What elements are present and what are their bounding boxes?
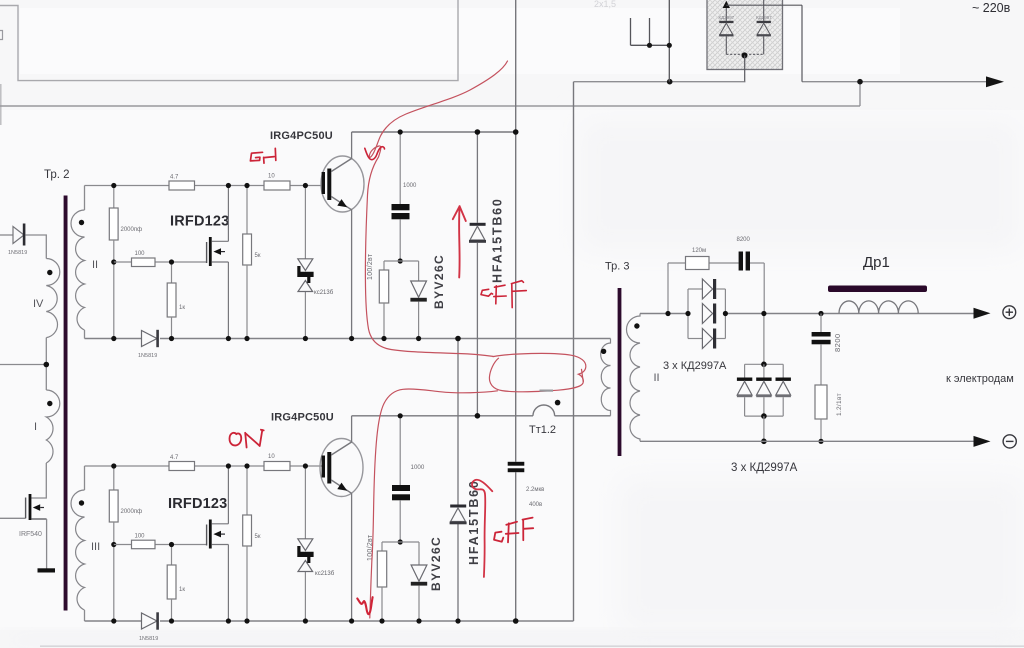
left edge stub mark <box>0 31 3 40</box>
svg-text:IRG4PC50U: IRG4PC50U <box>270 130 333 142</box>
arrowhead positive output <box>974 308 991 319</box>
resistor R10 2000pf on x=114 <box>113 466 115 490</box>
svg-text:к электродам: к электродам <box>946 373 1014 385</box>
annotation squiggle V (upper, right of IGBT) <box>365 147 385 160</box>
wire: upper collector bus y=132 <box>352 131 516 133</box>
diode D14 (center, points up) <box>763 364 765 377</box>
resistor R7 100/2w on x=384 <box>383 261 385 270</box>
svg-text:IRFD123: IRFD123 <box>168 496 227 512</box>
winding IV of Tr.2 <box>46 259 59 338</box>
annotation ON (lower) <box>229 430 263 448</box>
wire: vertical x=669 from top <box>668 0 670 82</box>
terminal plus <box>1003 306 1016 319</box>
annotation red curl line (lower, to OFF) <box>472 480 492 577</box>
capacitor C2 1000 on x=400 (lower) <box>399 416 401 485</box>
svg-text:100/2вт: 100/2вт <box>367 253 374 280</box>
inductor Dr1 winding <box>839 301 918 313</box>
wire: half-bridge link x=458 (y339-y621) <box>457 339 459 505</box>
wire: group down to negative bus <box>763 416 765 441</box>
wire: long bus y=106 <box>0 105 860 107</box>
winding I of Tr.2 <box>46 390 59 463</box>
bridge internal: right diode leg <box>763 0 765 54</box>
svg-text:BYV26C: BYV26C <box>432 254 446 309</box>
transistor V2 IRG4PC50U (lower IGBT) <box>320 439 363 497</box>
wire: long vertical x=573.5 (DC rail down to bottom bus) <box>573 82 575 621</box>
wire: Q1 source to emitter bus <box>227 262 229 339</box>
diode D4 1N5819 (inline on emitter bus) <box>142 331 158 347</box>
svg-text:Др1: Др1 <box>863 254 890 271</box>
diode D5 BYV26C on x=418.6 <box>418 261 420 281</box>
resistor R14 100/2w on x=382 <box>381 542 383 551</box>
svg-text:1N5819: 1N5819 <box>138 353 157 359</box>
svg-text:IRG4PC50U: IRG4PC50U <box>271 412 334 424</box>
transistor Q3 IRF540 <box>25 498 27 519</box>
svg-text:1к: 1к <box>179 305 185 311</box>
svg-text:Тт1.2: Тт1.2 <box>529 424 556 436</box>
node dot (669.3,45.3) <box>667 43 672 48</box>
annotation meander (exit left and V at bottom) <box>370 389 498 618</box>
svg-text:3 х КД2997А: 3 х КД2997А <box>731 462 798 474</box>
svg-text:IRF540: IRF540 <box>19 531 42 538</box>
wire: V2 emitter down to bottom bus <box>351 493 353 621</box>
wire: snubber down to bus at x=764 <box>763 263 765 314</box>
capacitor C1 1000 on x=400 <box>399 132 401 204</box>
node dot x=516 on bottom bus <box>513 618 519 624</box>
svg-text:1.2/1вт: 1.2/1вт <box>836 393 843 416</box>
control-board box (top left, cut off at top) <box>0 0 458 81</box>
wire: winding III top to lower gate bus <box>84 466 86 490</box>
svg-text:2.2мкв: 2.2мкв <box>526 487 544 493</box>
annotation ON (upper) <box>250 148 275 163</box>
wire: V2 collector up to bus y=416 <box>351 416 353 443</box>
transformer Tr.3 core <box>618 288 622 456</box>
wire: upper emitter bus y=338.5 <box>85 338 142 340</box>
zener VD1 kc213b on x=305.5 <box>304 186 306 259</box>
winding II of Tr.2 <box>71 210 85 330</box>
svg-text:II: II <box>92 259 98 271</box>
transistor Q3 IRF540 gate wire from left edge <box>0 517 26 519</box>
wire: top link y=5.2 from bridge to x802 <box>726 4 802 6</box>
wire: V1 collector up to bus y=132 <box>351 132 353 159</box>
svg-text:HFA15TB60: HFA15TB60 <box>491 197 505 283</box>
diode D8 BYV26C on x=419 (lower) <box>418 542 420 565</box>
wire: Q1 drain to top bus <box>227 186 229 242</box>
diode D12 bottom row <box>688 338 702 340</box>
diode D7 1N5819 (inline on bottom bus) <box>142 613 158 629</box>
bridge internal: dashed joining rail <box>726 53 763 55</box>
wire: diode cathode to winding IV <box>25 235 46 259</box>
svg-text:2000пф: 2000пф <box>121 509 143 515</box>
wire: output negative bus y=441.3 <box>640 440 974 442</box>
polarity dot Tt1.2 secondary <box>601 349 606 354</box>
capacitor C5 8200 on x=821 <box>820 314 822 333</box>
diode D10 top row <box>688 288 702 290</box>
diode D3 1N5819 (top left) anode wire <box>0 234 13 236</box>
resistor R2 10 (gate) <box>264 181 290 190</box>
transistor V1 IRG4PC50U (upper IGBT) <box>321 156 364 212</box>
wire: snubber row y=263 <box>668 262 686 264</box>
wire: winding III bottom to bottom bus <box>84 610 86 621</box>
winding II of Tr.3 <box>627 314 641 442</box>
resistor R12 1K on x=171.5 <box>171 545 173 566</box>
bridge internal: left diode leg <box>725 8 727 54</box>
diode D9 HFA15TB60 on x=458 (lower) <box>450 505 466 508</box>
svg-text:КД2997: КД2997 <box>719 15 735 20</box>
node dots on lower collector bus <box>475 413 481 419</box>
svg-text:кс213б: кс213б <box>315 571 335 577</box>
svg-text:I: I <box>34 421 37 433</box>
resistor R16 1.2/1w on x=821 <box>815 385 827 419</box>
svg-text:4.7: 4.7 <box>170 455 179 461</box>
svg-text:Тр. 3: Тр. 3 <box>605 261 629 273</box>
diode D6 HFA15TB60 on x=477.5 (upper) <box>476 132 478 223</box>
svg-text:кс213б: кс213б <box>314 290 334 296</box>
top rail <box>745 363 784 365</box>
svg-text:HFA15TB60: HFA15TB60 <box>467 479 481 565</box>
wire: riser x=860 joining both buses <box>859 82 861 106</box>
svg-text:4.7: 4.7 <box>170 175 179 181</box>
wire: Q2 drain to lower gate bus <box>227 466 229 524</box>
wire: output positive bus y=313.5 <box>640 313 688 315</box>
wire: stub x=630.5 <box>630 18 632 45</box>
left rail <box>687 289 689 339</box>
node dot at (860,81.7) <box>857 79 863 85</box>
svg-text:КД2997: КД2997 <box>756 15 772 20</box>
node dot bridge output (744.5,56) <box>742 52 748 58</box>
svg-text:2x1,5: 2x1,5 <box>594 0 616 9</box>
node dot at (669.7,81.7) <box>667 79 673 85</box>
resistor R4 100 <box>132 258 156 267</box>
diode D13 (left, points up) <box>744 364 746 377</box>
wire: middle gate-divider row y=262 <box>114 261 132 263</box>
resistor R1 4.7 <box>169 181 195 190</box>
terminal minus <box>1003 435 1016 448</box>
winding III of Tr.2 <box>71 490 85 610</box>
polarity dot winding III <box>79 500 84 505</box>
svg-text:8200: 8200 <box>737 237 751 243</box>
resistor R6 5K on x=247 <box>246 186 248 235</box>
svg-text:II: II <box>654 372 660 384</box>
capacitor C4 8200 (snubber) <box>739 252 743 271</box>
wire: winding II top to driver bus <box>84 186 86 211</box>
node dot x=821 on positive bus <box>818 311 823 316</box>
svg-text:BYV26C: BYV26C <box>429 536 443 591</box>
svg-text:5к: 5к <box>255 253 261 259</box>
arrowhead of 220V feed <box>986 76 1004 87</box>
svg-text:10: 10 <box>268 174 275 180</box>
mains bridge rectifier block (hatched) <box>707 0 783 70</box>
resistor R3 2000pf on x=114 <box>113 186 115 209</box>
wire: Q2 source to bottom bus <box>227 545 229 622</box>
svg-text:100: 100 <box>135 251 146 257</box>
polarity dot winding IV <box>47 270 52 275</box>
svg-text:5к: 5к <box>255 534 261 540</box>
svg-text:3 х КД2997А: 3 х КД2997А <box>663 360 727 372</box>
resistor R13 5K on x=247 <box>246 466 248 515</box>
right rail <box>724 289 726 339</box>
wire: winding I bottom to MOSFET drain <box>31 463 46 498</box>
node dots on bus at rails <box>685 311 690 316</box>
wire: long vertical x=516 (from top to bottom bus) <box>515 0 517 462</box>
diode D3 1N5819 (points right) <box>13 227 24 244</box>
svg-text:400в: 400в <box>529 502 542 508</box>
wire: x=764 from bus down to group <box>763 314 765 365</box>
polarity dot winding I <box>47 401 52 406</box>
transformer Tr.2 core <box>64 196 68 611</box>
zener VD2 kc213b on x=305.5 <box>304 466 306 539</box>
svg-text:1N5819: 1N5819 <box>139 636 158 642</box>
ground <box>38 568 56 572</box>
svg-text:~ 220в: ~ 220в <box>972 1 1011 15</box>
wire: lower snubber row y=542 <box>382 541 419 543</box>
svg-text:8200: 8200 <box>833 333 842 352</box>
svg-text:1000: 1000 <box>411 464 425 471</box>
up-arrow marker on bridge top wire <box>723 1 730 8</box>
faint bottom scan line <box>40 645 1024 647</box>
node dots x=114 <box>111 183 116 188</box>
snubber branch: wire up from bus at x=668 <box>667 263 669 314</box>
wire: lower driver gate bus y=466 <box>85 465 170 467</box>
wire: lower middle row y=544.5 <box>114 544 132 546</box>
wire: DC bus y=81.7 left segment (x574-x745) <box>574 81 746 83</box>
annotation red arrow up (upper, near HFA15TB60) <box>453 206 466 277</box>
svg-text:Тр. 2: Тр. 2 <box>44 169 70 181</box>
svg-text:2000пф: 2000пф <box>121 227 143 233</box>
wire: DC bus y=81.7 right segment with arrow <box>802 81 988 83</box>
wire: horizontal y=45.3 joining stubs <box>631 44 670 46</box>
svg-text:1000: 1000 <box>403 183 417 189</box>
wire: source down to ground <box>46 519 48 569</box>
wire: upper driver gate bus y=185.5 <box>85 185 170 187</box>
annotation bold V at bottom bus <box>357 597 372 614</box>
wire: bottom emitter bus y=621 <box>85 620 142 622</box>
wire: tap to left edge y=364.5 <box>0 364 46 366</box>
wire: winding IV bottom down to tap <box>45 338 47 390</box>
svg-text:IV: IV <box>33 298 44 310</box>
resistor R8 4.7 <box>169 462 195 471</box>
svg-text:120м: 120м <box>692 248 706 254</box>
resistor R15 120m <box>686 257 710 270</box>
inductor Dr1 core <box>828 286 927 293</box>
winding of Tt1.2 (secondary, vertical) <box>601 339 611 416</box>
arrowhead negative output <box>974 436 991 447</box>
svg-text:10: 10 <box>268 454 275 460</box>
bridge internal: left diode (points up) <box>719 21 733 23</box>
annotation grey dash near oval <box>540 390 554 392</box>
svg-text:100: 100 <box>135 534 146 540</box>
current transformer Tt1.2 pass-through loop <box>533 405 555 416</box>
resistor R5 1K on x=171.5 <box>171 262 173 283</box>
wire: lower collector bus y=415.8 (to Tt1.2 with loop) <box>352 415 533 417</box>
diode D15 (right, points up) <box>782 364 784 377</box>
capacitor C3 2.2uF 400v on x=516 <box>508 462 525 466</box>
polarity dot winding II Tr.3 <box>634 323 639 328</box>
resistor R9 10 (gate) <box>264 462 290 471</box>
svg-text:1N5819: 1N5819 <box>8 250 27 256</box>
svg-text:IRFD123: IRFD123 <box>170 214 229 230</box>
diode D11 middle row (on bus) <box>702 304 712 324</box>
svg-text:III: III <box>91 541 100 553</box>
node dot (649.5,45.3) <box>647 43 652 48</box>
wire: corner connecting bus to bridge at x745 <box>744 81 747 83</box>
annotation OFF (upper) <box>481 281 526 308</box>
wire: stub x=649.5 <box>649 18 651 45</box>
wire: drop x=802 to bus <box>801 5 803 82</box>
annotation long meander line (upper part with V) <box>357 61 586 618</box>
node dot (46.3,364.5) <box>44 362 50 368</box>
wire: V1 emitter down to bus y=338.5 <box>351 210 353 339</box>
polarity dot of Tt1.2 primary <box>555 400 561 406</box>
polarity dot winding II <box>79 220 84 225</box>
svg-text:1к: 1к <box>179 587 185 593</box>
resistor R11 100 <box>132 540 156 549</box>
wire: winding II bottom to emitter bus <box>84 330 86 339</box>
annotation oval around Tt1.2 <box>489 353 585 391</box>
annotation OFF (lower) <box>494 518 533 543</box>
bridge internal: right diode (points up) <box>757 21 771 23</box>
left edge scan mark <box>0 84 2 125</box>
wire: snubber row y=261 <box>384 260 419 262</box>
bottom rail <box>745 415 784 417</box>
wire: bridge output down to bus <box>744 55 746 81</box>
